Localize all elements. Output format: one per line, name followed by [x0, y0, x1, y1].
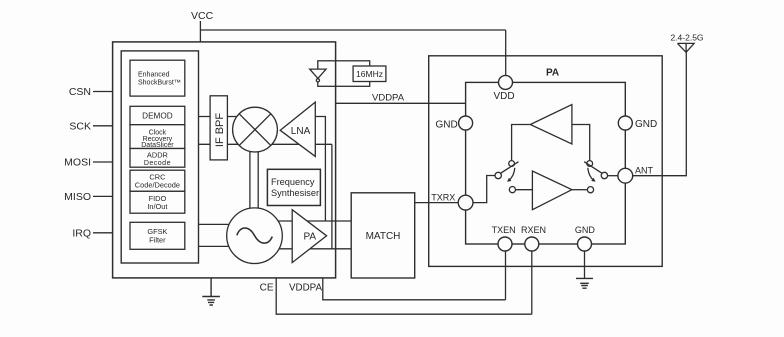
svg-text:16MHz: 16MHz [356, 69, 383, 79]
pin CE wire [276, 278, 532, 314]
svg-text:MATCH: MATCH [366, 231, 401, 242]
wire TXRX match to pin [415, 202, 459, 204]
amplifier RX LNA in module [530, 105, 572, 145]
antenna 2.4-2.5G [678, 43, 695, 52]
pin TXEN [498, 237, 512, 251]
svg-text:DEMOD: DEMOD [142, 112, 173, 121]
block CRC Code/Decode [130, 170, 185, 191]
wire DataSlicer to IF BPF and LNA lower bus [199, 143, 332, 145]
inverter bubble [316, 79, 319, 82]
block GFSK Filter [130, 222, 185, 249]
wire LNA upper output [315, 117, 325, 222]
wire SW1 common to TXRX pin [473, 176, 495, 203]
wire MOSI [93, 161, 113, 163]
svg-text:IF BPF: IF BPF [214, 113, 226, 148]
block DEMOD [130, 106, 185, 124]
pin VDD [499, 75, 513, 89]
wire SW1 to TX amp input [516, 189, 533, 191]
amplifier PA on-chip [292, 210, 326, 263]
svg-text:Enhanced: Enhanced [138, 72, 170, 79]
svg-text:Frequency: Frequency [271, 177, 315, 187]
svg-text:GND: GND [435, 119, 457, 130]
block Enhanced ShockBurst [130, 60, 185, 96]
svg-text:GND: GND [575, 225, 596, 235]
svg-text:CSN: CSN [69, 86, 91, 98]
wire RX amp input to SW2 [572, 125, 590, 161]
svg-text:Decode: Decode [144, 160, 171, 167]
svg-text:IRQ: IRQ [72, 228, 91, 240]
svg-text:2.4-2.5G: 2.4-2.5G [670, 33, 703, 43]
wire RXEN pin down [531, 251, 533, 314]
block MATCH [351, 193, 415, 278]
mixer X1 [233, 107, 278, 152]
svg-text:MISO: MISO [64, 191, 91, 203]
wire RX amp output to SW1 [512, 125, 531, 161]
wire ANT pin to antenna [633, 52, 687, 175]
svg-text:LNA: LNA [291, 126, 311, 137]
block ADDR Decode [130, 149, 185, 168]
svg-text:VDD: VDD [493, 91, 514, 102]
crystal loop [318, 61, 370, 87]
svg-text:Filter: Filter [149, 236, 166, 245]
inverter XO [310, 69, 326, 78]
svg-text:ANT: ANT [635, 166, 654, 176]
wire LO pair mixer to VCO [250, 150, 258, 209]
wire MISO [93, 195, 113, 197]
wire GFSK to VCO upper [199, 223, 237, 225]
wire VDDPA to PA module [336, 102, 466, 104]
wire SCK [93, 125, 113, 127]
block Frequency Synthesiser [267, 169, 320, 205]
svg-text:PA: PA [304, 232, 317, 243]
switch SW1 [509, 161, 515, 167]
ground PA module [576, 278, 593, 288]
svg-text:TXRX: TXRX [431, 192, 455, 202]
svg-text:SCK: SCK [69, 121, 91, 133]
wire DEMOD to IF BPF [199, 116, 239, 118]
amplifier LNA [280, 102, 315, 156]
PA chip inner box [466, 82, 626, 244]
svg-text:CE: CE [260, 282, 274, 293]
pin TXRX [458, 195, 473, 210]
wire GFSK to VCO lower [199, 245, 237, 247]
svg-text:VDDPA: VDDPA [289, 282, 322, 293]
amplifier TX PA in module [532, 171, 572, 210]
pin VDDPA bottom wire [323, 278, 506, 300]
svg-text:VDDPA: VDDPA [372, 92, 405, 103]
svg-text:RXEN: RXEN [521, 225, 546, 235]
svg-text:GFSK: GFSK [147, 227, 167, 236]
svg-text:Synthesiser: Synthesiser [271, 188, 319, 198]
crystal Y1 16MHz [353, 66, 386, 82]
pin GND right [618, 116, 632, 130]
pin GND bottom [578, 237, 592, 251]
pin ANT [618, 168, 633, 183]
wire SW2 common to ANT pin [608, 175, 618, 177]
wire ANT2 VCO-PA-MATCH [278, 248, 351, 250]
svg-text:ADDR: ADDR [147, 151, 168, 160]
wire GND pin down to ground [584, 251, 586, 278]
baseband logic inner box [121, 51, 198, 263]
block Clock Recovery DataSlicer [130, 125, 185, 149]
svg-text:VCC: VCC [191, 10, 214, 22]
switch SW2 [587, 161, 593, 167]
svg-text:PA: PA [546, 68, 559, 79]
svg-text:Code/Decode: Code/Decode [135, 180, 180, 189]
oscillator VCO [227, 208, 283, 264]
wire CSN [93, 91, 113, 93]
filter IF BPF [210, 96, 227, 160]
ground chip [202, 278, 220, 305]
chip U1 nRF24L01 outer box [113, 42, 336, 278]
svg-text:In/Out: In/Out [147, 202, 167, 211]
module PA outer box [429, 56, 663, 267]
wire IRQ [93, 232, 113, 234]
svg-text:ShockBurst™: ShockBurst™ [138, 79, 181, 86]
pin RXEN [525, 237, 539, 251]
wire LNA lower output vertical [331, 144, 333, 249]
svg-text:GND: GND [635, 119, 657, 130]
pin GND left [459, 116, 473, 130]
svg-text:TXEN: TXEN [492, 225, 516, 235]
wire TXEN pin down [505, 251, 507, 300]
block FIDO In/Out [130, 191, 185, 213]
wire VCC rail [200, 21, 505, 76]
wire TX amp output to SW2 [572, 189, 588, 191]
svg-text:MOSI: MOSI [64, 157, 91, 169]
wire ANT1 VCO-PA-MATCH [277, 220, 351, 222]
